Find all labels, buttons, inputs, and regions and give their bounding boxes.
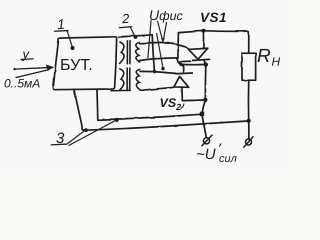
svg-text:Uфис: Uфис — [149, 7, 184, 23]
svg-text:~U: ~U — [196, 146, 216, 163]
svg-text:1: 1 — [56, 16, 65, 33]
svg-text:H: H — [272, 55, 281, 69]
svg-text:R: R — [257, 46, 271, 67]
svg-text:БУТ.: БУТ. — [60, 57, 93, 74]
svg-text:VS1: VS1 — [200, 10, 227, 25]
svg-text:сил: сил — [219, 153, 237, 165]
svg-text:0..5мА: 0..5мА — [4, 76, 40, 90]
